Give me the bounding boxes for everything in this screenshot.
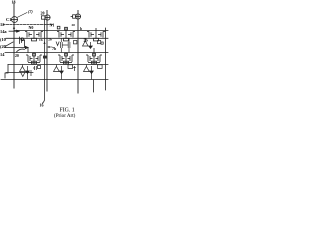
- svg-text:N1: N1: [50, 23, 55, 28]
- svg-text:20: 20: [72, 23, 76, 27]
- svg-text:(7): (7): [28, 9, 33, 14]
- svg-text:N0: N0: [29, 25, 34, 30]
- svg-text:(Prior Art): (Prior Art): [54, 112, 76, 119]
- svg-text:20: 20: [41, 11, 45, 16]
- svg-text:7b: 7b: [52, 46, 57, 51]
- svg-text:14a: 14a: [0, 29, 7, 34]
- svg-text:16: 16: [40, 102, 44, 107]
- svg-text:(10: (10: [0, 37, 7, 42]
- svg-text:(20: (20: [0, 44, 7, 49]
- svg-text:20: 20: [15, 54, 19, 58]
- svg-text:C1: C1: [6, 17, 11, 22]
- svg-text:1b: 1b: [39, 38, 43, 42]
- svg-text:2b: 2b: [48, 38, 52, 42]
- svg-text:b: b: [80, 27, 82, 31]
- svg-text:18: 18: [12, 0, 16, 5]
- svg-text:12: 12: [0, 22, 4, 27]
- svg-text:14: 14: [0, 52, 5, 57]
